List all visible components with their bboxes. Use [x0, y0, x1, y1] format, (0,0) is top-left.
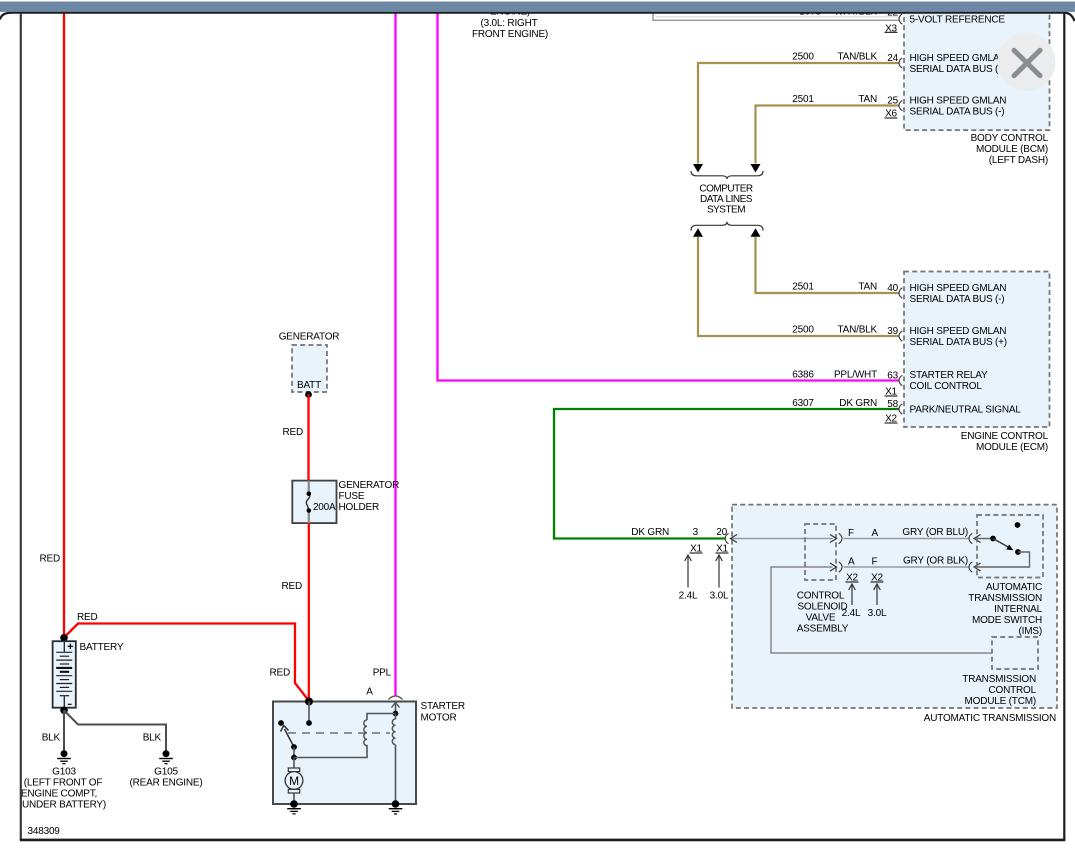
svg-text:348309: 348309 [28, 826, 61, 837]
svg-text:AUTOMATIC TRANSMISSION: AUTOMATIC TRANSMISSION [924, 713, 1056, 724]
wire RED generator to fuse holder [282, 395, 308, 482]
svg-text:G105: G105 [154, 767, 178, 778]
wire GRY (OR BLK) solenoid to IMS [844, 556, 970, 568]
wire TAN 2501 to BCM pin 25 [756, 94, 900, 164]
svg-text:STARTER: STARTER [421, 701, 465, 712]
node battery positive junction [60, 634, 68, 642]
ground starter case [389, 800, 403, 814]
module BCM box [904, 13, 1050, 166]
motor M [285, 768, 303, 804]
svg-text:RED: RED [282, 427, 303, 438]
close button X [998, 33, 1056, 91]
pin 22 bracket [899, 14, 902, 24]
svg-text:39: 39 [887, 326, 898, 337]
wire RED battery feed from top [39, 13, 64, 638]
node battery negative junction [60, 707, 68, 715]
brace lower (computer data lines) [691, 222, 763, 231]
svg-text:58: 58 [887, 399, 898, 410]
svg-text:TAN/BLK: TAN/BLK [837, 325, 877, 336]
svg-text:PPL: PPL [373, 668, 392, 679]
wire TAN/BLK 2500 to BCM pin 24 [698, 52, 899, 164]
fuse holder GENERATOR FUSE HOLDER 200A [292, 480, 399, 523]
ground G103 [21, 750, 106, 810]
svg-text:2501: 2501 [792, 94, 814, 105]
wire BLK battery to G105 [64, 710, 166, 750]
generator GENERATOR box [279, 332, 340, 393]
svg-text:X3: X3 [885, 24, 897, 35]
svg-text:3: 3 [693, 527, 699, 538]
svg-text:TRANSMISSION: TRANSMISSION [968, 593, 1042, 604]
starter solenoid contact stud [306, 702, 312, 726]
svg-text:25: 25 [887, 96, 898, 107]
svg-text:2500: 2500 [792, 52, 814, 63]
pin 25 bracket [899, 100, 902, 110]
node starter B+ junction [305, 698, 313, 706]
svg-text:CONTROL: CONTROL [989, 685, 1037, 696]
svg-text:INTERNAL: INTERNAL [994, 604, 1042, 615]
svg-text:RED: RED [281, 581, 302, 592]
svg-text:MODULE (TCM): MODULE (TCM) [965, 696, 1036, 707]
svg-text:TAN: TAN [858, 282, 877, 293]
svg-text:AUTOMATIC: AUTOMATIC [986, 582, 1042, 593]
wire RED fuse holder to starter motor [281, 523, 308, 701]
page border top with rounded corners [0, 13, 1075, 21]
solenoid bracket row2 [830, 557, 884, 584]
wire PPL to starter motor A terminal [373, 13, 396, 696]
pin 63 bracket [899, 375, 902, 385]
svg-text:BATT: BATT [297, 380, 321, 391]
svg-text:3.0L: 3.0L [710, 591, 729, 602]
arrowhead up right tan [751, 228, 761, 237]
svg-text:DATA LINES: DATA LINES [700, 194, 753, 205]
svg-text:GRY (OR BLU): GRY (OR BLU) [902, 527, 968, 538]
starter switch contact [278, 720, 284, 726]
svg-text:HIGH SPEED GMLAN: HIGH SPEED GMLAN [910, 283, 1007, 294]
coil hold-in winding [392, 714, 395, 805]
pin 58 bracket [899, 404, 902, 414]
svg-text:40: 40 [887, 283, 898, 294]
IMS internal mode switch box [968, 515, 1043, 637]
svg-text:FUSE: FUSE [339, 491, 365, 502]
svg-text:2.4L: 2.4L [679, 591, 698, 602]
wire RED battery positive to starter motor [64, 612, 309, 701]
svg-text:TAN: TAN [858, 94, 877, 105]
svg-text:MODULE (ECM): MODULE (ECM) [976, 442, 1048, 453]
svg-text:UNDER BATTERY): UNDER BATTERY) [22, 800, 106, 811]
svg-text:2.4L: 2.4L [842, 608, 861, 619]
ground motor case [287, 800, 301, 814]
toolbar [0, 2, 1075, 12]
svg-text:F: F [872, 557, 878, 568]
svg-text:F: F [848, 528, 854, 539]
svg-text:SYSTEM: SYSTEM [707, 205, 745, 216]
IMS bracket row2 [969, 562, 981, 572]
svg-text:GENERATOR: GENERATOR [279, 332, 340, 343]
svg-text:A: A [872, 528, 879, 539]
wire TAN/BLK 2500 to ECM pin 39 [698, 237, 899, 337]
svg-text:COMPUTER: COMPUTER [699, 184, 753, 195]
coil pull-in winding [364, 714, 396, 746]
svg-text:GRY (OR BLK): GRY (OR BLK) [903, 556, 968, 567]
wire DK GRN 6307 ECM pin 58 to transmission [554, 398, 899, 539]
solenoid bracket row1 [830, 528, 879, 544]
starter switch blade [281, 726, 297, 750]
control solenoid valve assembly box [797, 524, 849, 635]
svg-text:MOTOR: MOTOR [421, 713, 457, 724]
page border right [1063, 13, 1065, 840]
svg-text:(3.0L: RIGHT: (3.0L: RIGHT [480, 18, 537, 29]
wire switch to motor and coil [291, 745, 367, 768]
svg-text:SERIAL DATA BUS (-): SERIAL DATA BUS (-) [910, 294, 1005, 305]
svg-text:(REAR ENGINE): (REAR ENGINE) [130, 778, 203, 789]
svg-text:CONTROL: CONTROL [797, 591, 845, 602]
pin 39 bracket [899, 331, 902, 341]
svg-text:BLK: BLK [42, 733, 61, 744]
svg-text:FRONT ENGINE): FRONT ENGINE) [472, 29, 548, 40]
svg-text:DK GRN: DK GRN [839, 398, 877, 409]
svg-text:G103: G103 [52, 767, 76, 778]
wire PPL/WHT 6386 to ECM pin 63 [438, 13, 900, 398]
svg-text:BATTERY: BATTERY [80, 642, 124, 653]
wire row2 TCM to solenoid [771, 567, 992, 653]
svg-text:RED: RED [39, 554, 60, 565]
svg-text:6307: 6307 [792, 398, 814, 409]
arrowhead down left tan [693, 164, 703, 173]
svg-text:M: M [289, 774, 299, 788]
svg-text:HOLDER: HOLDER [339, 502, 379, 513]
svg-text:MODULE (BCM): MODULE (BCM) [976, 144, 1048, 155]
arrowhead up left tan [693, 228, 703, 237]
svg-text:DK GRN: DK GRN [631, 527, 669, 538]
pin 40 bracket [899, 288, 902, 298]
svg-text:PARK/NEUTRAL SIGNAL: PARK/NEUTRAL SIGNAL [910, 405, 1022, 416]
terminal A bracket [366, 687, 402, 700]
starter motor box [273, 701, 465, 804]
node BATT terminal junction [305, 391, 312, 398]
svg-text:SERIAL DATA BUS (+): SERIAL DATA BUS (+) [910, 64, 1007, 75]
IMS bracket row1 [969, 533, 993, 543]
svg-text:ASSEMBLY: ASSEMBLY [797, 624, 849, 635]
wire BLK battery to G103 [42, 710, 64, 750]
svg-text:TRANSMISSION: TRANSMISSION [962, 674, 1036, 685]
svg-text:3.0L: 3.0L [868, 608, 887, 619]
svg-text:BODY CONTROL: BODY CONTROL [971, 133, 1049, 144]
svg-text:ENGINE CONTROL: ENGINE CONTROL [961, 431, 1049, 442]
svg-text:24: 24 [887, 53, 898, 64]
svg-text:PPL/WHT: PPL/WHT [834, 370, 877, 381]
svg-text:A: A [366, 687, 373, 698]
svg-text:MODE SWITCH: MODE SWITCH [972, 615, 1042, 626]
svg-text:SERIAL DATA BUS (-): SERIAL DATA BUS (-) [910, 107, 1005, 118]
svg-text:2500: 2500 [792, 325, 814, 336]
transmission AUTOMATIC TRANSMISSION box [732, 505, 1057, 724]
ground G105 [130, 750, 203, 788]
arrowhead down right tan [751, 164, 761, 173]
svg-text:VALVE: VALVE [806, 613, 836, 624]
svg-text:ENGINE COMPT,: ENGINE COMPT, [21, 789, 97, 800]
svg-text:STARTER RELAY: STARTER RELAY [910, 370, 989, 381]
engine variant arrows 2.4L 3.0L (X1) [679, 555, 729, 602]
label (3.0L: RIGHT FRONT ENGINE) [472, 7, 548, 41]
svg-text:HIGH SPEED GMLAN: HIGH SPEED GMLAN [910, 53, 1007, 64]
svg-text:SERIAL DATA BUS (+): SERIAL DATA BUS (+) [910, 337, 1007, 348]
svg-text:RED: RED [77, 612, 98, 623]
svg-text:(LEFT FRONT OF: (LEFT FRONT OF [24, 778, 103, 789]
svg-text:BLK: BLK [143, 733, 162, 744]
node COMPUTER DATA LINES SYSTEM [699, 184, 753, 216]
pin 3/20 labels X1 [690, 527, 729, 555]
engine variant arrows 2.4L 3.0L (X2) [842, 584, 887, 619]
svg-text:TAN/BLK: TAN/BLK [837, 52, 877, 63]
wire GRY row1 pin to solenoid [731, 535, 833, 543]
brace upper (computer data lines) [691, 171, 763, 179]
svg-text:HIGH SPEED GMLAN: HIGH SPEED GMLAN [910, 96, 1007, 107]
wire 1073 WHT/BLK to BCM pin 22 [652, 7, 899, 35]
module ECM box [904, 272, 1050, 454]
svg-text:A: A [848, 557, 855, 568]
svg-text:6386: 6386 [792, 370, 814, 381]
svg-text:5-VOLT REFERENCE: 5-VOLT REFERENCE [910, 15, 1006, 26]
svg-text:63: 63 [887, 371, 898, 382]
svg-text:(LEFT DASH): (LEFT DASH) [989, 155, 1048, 166]
svg-text:2501: 2501 [792, 282, 814, 293]
terminal A arrow into solenoid coils [392, 703, 400, 717]
wire TAN 2501 to ECM pin 40 [756, 237, 900, 294]
wire GRY (OR BLU) solenoid to IMS [844, 527, 970, 539]
svg-text:(IMS): (IMS) [1019, 626, 1042, 637]
page border left [20, 13, 22, 840]
TCM box [962, 637, 1038, 707]
mechanical link dashed [288, 732, 390, 734]
svg-text:200A: 200A [313, 502, 336, 513]
svg-text:HIGH SPEED GMLAN: HIGH SPEED GMLAN [910, 326, 1007, 337]
svg-text:COIL CONTROL: COIL CONTROL [910, 381, 983, 392]
page border bottom [20, 839, 1066, 842]
svg-text:GENERATOR: GENERATOR [339, 480, 400, 491]
svg-text:RED: RED [269, 668, 290, 679]
IMS switch [975, 522, 1030, 567]
battery BATTERY [53, 641, 124, 708]
pin bracket X1 transmission [725, 533, 728, 543]
pin 24 bracket [899, 58, 902, 68]
svg-text:SOLENOID: SOLENOID [797, 602, 847, 613]
